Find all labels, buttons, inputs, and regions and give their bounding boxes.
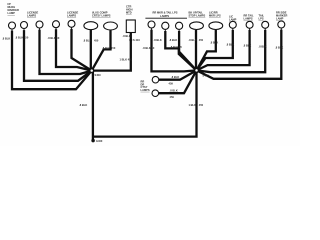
svg-text:450: 450	[199, 103, 204, 107]
ground G400	[91, 139, 94, 142]
wire from lamp E1 down to splice S409	[90, 30, 92, 71]
svg-text:.8 BLK 150: .8 BLK 150	[15, 36, 29, 40]
wire from C4 to splice S409	[56, 29, 92, 70]
wire from splice S417 down and left to ground G400	[93, 70, 197, 136]
svg-text:.8 BLK 45: .8 BLK 45	[170, 45, 182, 49]
svg-text:.8 BLK: .8 BLK	[170, 88, 178, 92]
svg-text:.8 BLK: .8 BLK	[171, 75, 179, 79]
wire from lamp RE1 down to splice S417	[195, 30, 197, 70]
lamp M1 rear door courtesy lamp	[152, 76, 159, 83]
svg-text:MKR LPS: MKR LPS	[209, 14, 221, 18]
svg-text:.8 BLK: .8 BLK	[169, 38, 177, 42]
wire from C1 to splice S409	[12, 31, 92, 90]
svg-text:459: 459	[170, 95, 175, 99]
svg-text:.8 BLK 50: .8 BLK 50	[143, 46, 155, 50]
wire from courtesy lamp M2 to splice S417	[159, 70, 197, 93]
svg-text:.8 BLK 150: .8 BLK 150	[102, 46, 116, 50]
bracket over tail lamps R0 R1 R2	[145, 17, 187, 19]
svg-text:S417: S417	[203, 73, 210, 77]
svg-text:.8 BLK: .8 BLK	[83, 38, 91, 42]
lamp M2 rear door courtesy lamp	[152, 90, 159, 97]
lamp R1 tail lamp	[162, 22, 169, 29]
wire from CHMSL U1 to splice S409	[92, 33, 131, 71]
svg-text:.8 BLK: .8 BLK	[123, 34, 131, 38]
svg-text:.8 BLK: .8 BLK	[189, 38, 197, 42]
wire from C2 to splice S409	[24, 30, 92, 81]
svg-text:.8 BLK 50: .8 BLK 50	[48, 36, 60, 40]
wire from lamp R6 to splice S417	[197, 30, 282, 79]
svg-text:LAMPS: LAMPS	[27, 14, 36, 18]
wire from courtesy lamp M1 to splice S417	[159, 70, 197, 79]
svg-text:.8 BLK: .8 BLK	[2, 37, 10, 41]
svg-text:459: 459	[169, 81, 174, 85]
lamp R4 tail lamp	[246, 21, 253, 28]
lamp C5 license lamp	[68, 20, 75, 27]
wire from lamp E2 to splice S409	[92, 30, 111, 70]
lamp R3 license lamp	[229, 21, 236, 28]
svg-text:LAMP: LAMP	[229, 18, 237, 22]
svg-text:LAMP: LAMP	[8, 11, 16, 15]
svg-text:.8 BLK: .8 BLK	[210, 41, 218, 45]
connector stems under lamps	[12, 27, 281, 93]
lamp C2	[21, 22, 28, 29]
lamp E2 luggage compartment lamp	[104, 22, 118, 30]
lamp R6 rear side marker lamp	[278, 21, 285, 28]
wire from lamp R1 to splice S417	[165, 31, 196, 70]
wire from C5 to splice S409	[72, 29, 92, 71]
svg-text:.8 BLK: .8 BLK	[243, 44, 251, 48]
svg-text:450: 450	[94, 39, 99, 43]
svg-text:450: 450	[199, 38, 204, 42]
svg-text:S409: S409	[95, 73, 102, 77]
lamp C1 I/P marker lamp	[9, 22, 16, 29]
svg-text:LAMPS: LAMPS	[244, 17, 253, 21]
svg-text:LAMP: LAMP	[276, 16, 284, 20]
lamp R5 tail lamp	[262, 21, 269, 28]
wire from lamp R5 to splice S417	[197, 30, 266, 72]
lamp R0 tail lamp	[148, 21, 155, 28]
svg-text:LAMPS: LAMPS	[160, 14, 169, 18]
lamp C4	[53, 21, 60, 28]
svg-text:CRTSY LAMPS: CRTSY LAMPS	[92, 14, 111, 18]
CHMSL module U1	[126, 20, 135, 33]
splice S409	[90, 69, 94, 73]
splice S410 on CHMSL wire	[129, 39, 132, 42]
svg-text:S 410: S 410	[133, 38, 140, 42]
svg-text:STOP LAMPS: STOP LAMPS	[189, 14, 206, 18]
wire from lamp RE2 to splice S417	[197, 30, 216, 71]
svg-text:G400: G400	[96, 139, 103, 143]
wire from splice S409 down to ground G400	[92, 71, 94, 141]
wire from lamp R0 to splice S417	[152, 30, 197, 72]
lamp R2 tail lamp	[176, 22, 183, 29]
svg-text:LAMPS: LAMPS	[67, 14, 76, 18]
svg-text:MTD: MTD	[126, 11, 132, 15]
svg-text:.8 BLK: .8 BLK	[79, 103, 87, 107]
svg-text:.8 BLK: .8 BLK	[275, 46, 283, 50]
lamp E1 luggage compartment lamp	[84, 22, 98, 30]
wire from lamp R4 to splice S417	[197, 30, 250, 71]
wire from C3 to splice S409	[40, 30, 92, 74]
svg-text:LAMPS: LAMPS	[141, 88, 150, 92]
lamp C3 license lamp	[36, 21, 43, 28]
svg-text:LPS: LPS	[259, 17, 264, 21]
svg-text:1 BLK: 1 BLK	[189, 103, 197, 107]
splice S417	[195, 68, 199, 72]
svg-text:1 BLK 450: 1 BLK 450	[120, 58, 133, 62]
svg-text:.8 BLK: .8 BLK	[259, 45, 267, 49]
svg-text:.8 BLK: .8 BLK	[154, 38, 162, 42]
lamp RE2 backup lamp	[209, 22, 223, 30]
svg-text:.8 BLK: .8 BLK	[226, 43, 234, 47]
lamp RE1 backup lamp	[190, 22, 204, 30]
wire from lamp R2 to splice S417	[179, 31, 196, 70]
wire from lamp R3 to splice S417	[197, 30, 233, 71]
